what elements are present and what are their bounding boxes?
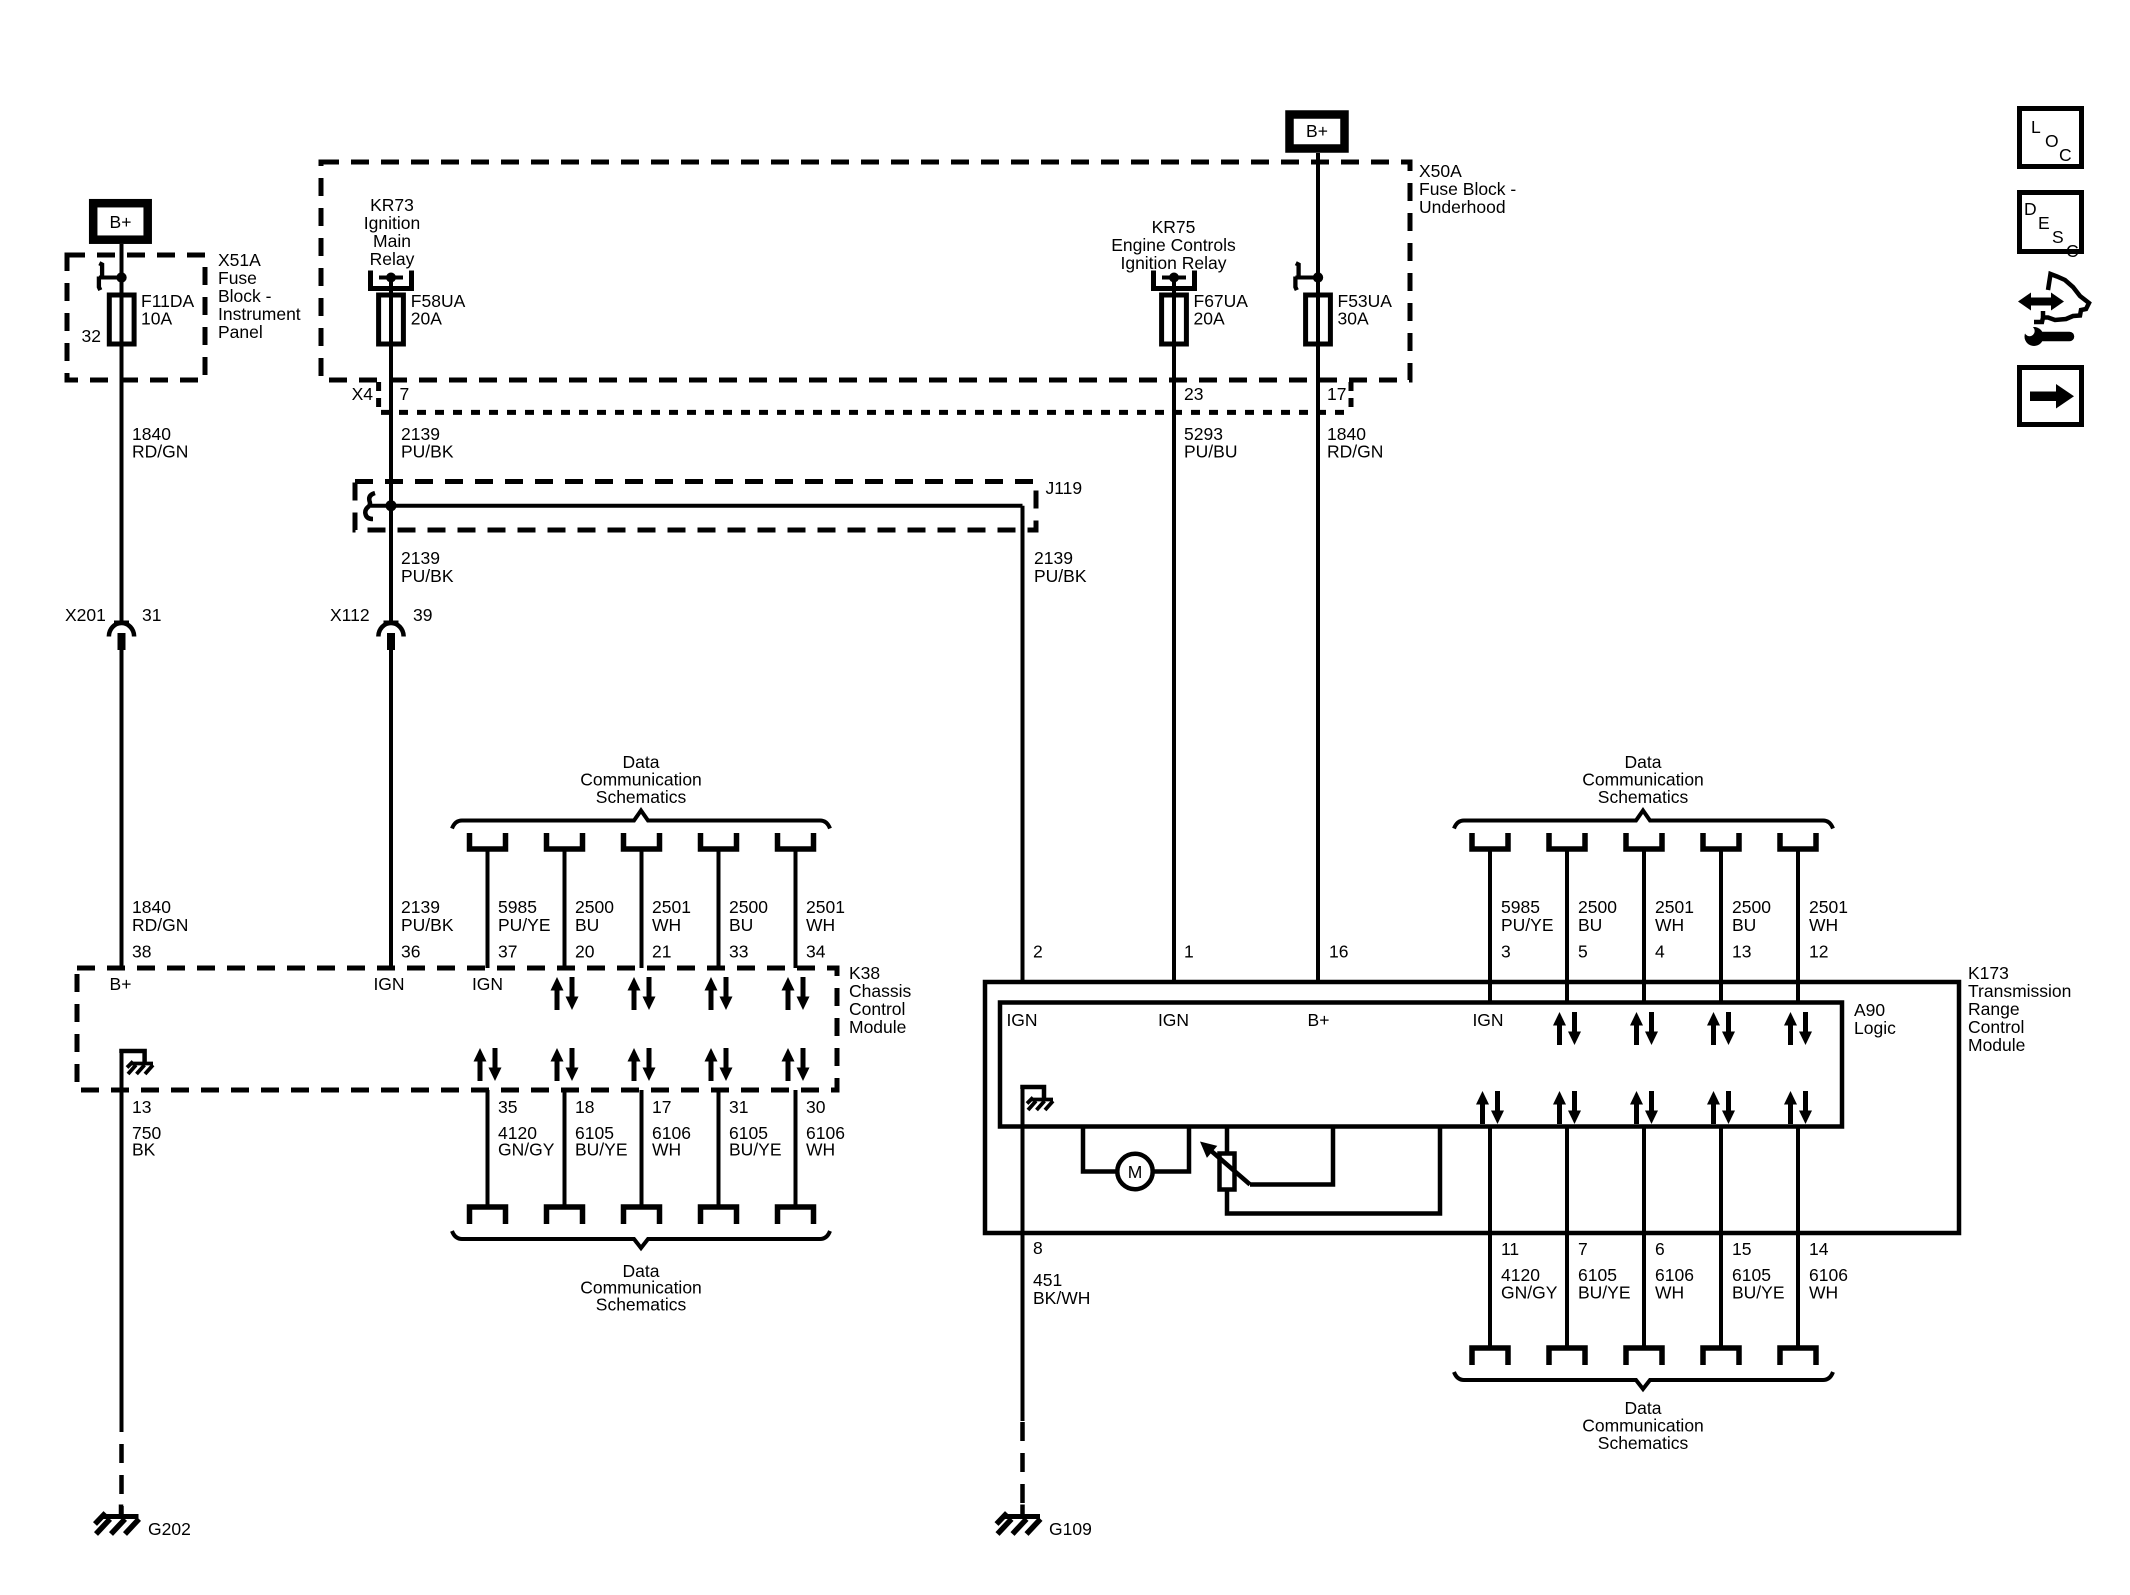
- svg-text:BU: BU: [729, 915, 753, 935]
- relay KR73 contact: [371, 271, 412, 289]
- K173 Transmission Range Control Module label: [1968, 963, 2071, 1055]
- svg-text:Panel: Panel: [218, 322, 263, 342]
- wire: X201 down to K38 pin 38: [120, 650, 124, 968]
- svg-text:37: 37: [498, 942, 517, 962]
- brace (K173 bottom): [1454, 1372, 1833, 1389]
- data wire and terminal (K38 bottom col 2): [547, 1090, 583, 1224]
- svg-text:32: 32: [82, 326, 101, 346]
- svg-text:Ignition: Ignition: [364, 213, 420, 233]
- data link terminal and wire (K38 col 4): [701, 833, 737, 968]
- data wire and terminal (K38 bottom col 4): [701, 1090, 737, 1224]
- svg-text:2500: 2500: [1732, 897, 1771, 917]
- A90 Logic label: [1854, 1000, 1896, 1038]
- wire: F58UA down through X4 and J119 to X112: [389, 278, 393, 623]
- fuse F67UA 20A: [1162, 291, 1249, 344]
- data link terminal and wire (K38 col 2): [547, 833, 583, 968]
- svg-text:7: 7: [1578, 1239, 1588, 1259]
- data link terminal and wire (K38 col 5): [778, 833, 814, 968]
- data arrows top row K173 col 5: [1784, 1012, 1812, 1045]
- icon LOC box: [2020, 109, 2082, 167]
- variable resistor (range sensor): [1220, 1154, 1235, 1190]
- svg-text:KR75: KR75: [1152, 217, 1196, 237]
- junction dot J119: [386, 500, 397, 511]
- svg-text:35: 35: [498, 1097, 517, 1117]
- power terminal B+ (instrument panel feed): [93, 203, 148, 240]
- data arrows bottom row K173 col 4: [1707, 1091, 1735, 1124]
- data arrows bottom row K38 col 5: [782, 1048, 810, 1081]
- Data Communication Schematics label (K173 top): [1582, 752, 1704, 807]
- svg-text:18: 18: [575, 1097, 594, 1117]
- svg-text:K38: K38: [849, 963, 880, 983]
- svg-text:8: 8: [1033, 1238, 1043, 1258]
- svg-text:2501: 2501: [1655, 897, 1694, 917]
- junction wire J119 horizontal: [371, 504, 1023, 508]
- svg-text:Underhood: Underhood: [1419, 197, 1506, 217]
- svg-text:O: O: [2045, 131, 2059, 151]
- svg-text:C: C: [2066, 241, 2079, 261]
- svg-text:Module: Module: [849, 1017, 906, 1037]
- svg-text:BU: BU: [1732, 915, 1756, 935]
- module K38 Chassis Control Module dashed box: [77, 968, 837, 1090]
- icon DESC box: [2020, 193, 2082, 262]
- wire label 1840 RD/GN (right): [1327, 424, 1383, 462]
- svg-text:Fuse Block -: Fuse Block -: [1419, 179, 1516, 199]
- svg-text:2500: 2500: [729, 897, 768, 917]
- wire label 5985 PU/YE, pin 3: [1501, 897, 1554, 962]
- data wire and terminal (K173 bottom col 3): [1626, 1127, 1662, 1366]
- svg-text:14: 14: [1809, 1239, 1829, 1259]
- svg-text:K173: K173: [1968, 963, 2009, 983]
- fuse F11DA 10A: [109, 291, 194, 344]
- relay KR75 contact: [1154, 271, 1195, 289]
- svg-text:J119: J119: [1046, 478, 1083, 498]
- brace (K38 bottom): [452, 1231, 830, 1248]
- data link terminal and wire (K173 col 3): [1626, 833, 1662, 1003]
- svg-text:Control: Control: [1968, 1017, 2024, 1037]
- svg-text:Range: Range: [1968, 999, 2020, 1019]
- data wire and terminal (K173 bottom col 1): [1472, 1127, 1508, 1366]
- wire label 2501 WH, pin 12: [1809, 897, 1848, 962]
- svg-text:PU/BK: PU/BK: [1034, 566, 1087, 586]
- svg-text:M: M: [1128, 1162, 1143, 1182]
- data arrows top row K173 col 3: [1630, 1012, 1658, 1045]
- svg-text:A90: A90: [1854, 1000, 1885, 1020]
- svg-text:BK: BK: [132, 1140, 156, 1160]
- svg-text:2501: 2501: [1809, 897, 1848, 917]
- svg-text:GN/GY: GN/GY: [1501, 1283, 1558, 1303]
- data wire and terminal (K173 bottom col 4): [1703, 1127, 1739, 1366]
- svg-text:Transmission: Transmission: [1968, 981, 2071, 1001]
- svg-text:IGN: IGN: [1158, 1010, 1189, 1030]
- svg-text:30: 30: [806, 1097, 826, 1117]
- svg-text:2501: 2501: [806, 897, 845, 917]
- svg-text:Relay: Relay: [370, 249, 415, 269]
- svg-text:33: 33: [729, 942, 748, 962]
- splice pack J119 dashed box: [355, 482, 1036, 531]
- svg-text:L: L: [2031, 117, 2041, 137]
- wire: F67UA down to K173 pin 1: [1172, 278, 1176, 983]
- wire label 5985 PU/YE, pin 37: [498, 897, 551, 962]
- pin 17: [1327, 382, 1351, 409]
- svg-text:G109: G109: [1049, 1519, 1092, 1539]
- svg-text:5985: 5985: [1501, 897, 1540, 917]
- svg-text:Module: Module: [1968, 1035, 2025, 1055]
- ground G109: [997, 1505, 1092, 1540]
- pin 11, wire label 4120 GN/GY: [1501, 1239, 1558, 1303]
- svg-text:RD/GN: RD/GN: [132, 915, 188, 935]
- data link terminal and wire (K173 col 2): [1549, 833, 1585, 1003]
- svg-text:IGN: IGN: [373, 974, 404, 994]
- svg-text:BU: BU: [1578, 915, 1602, 935]
- svg-text:B+: B+: [110, 974, 132, 994]
- svg-text:C: C: [2059, 145, 2072, 165]
- X50A Fuse Block - Underhood label: [1419, 161, 1516, 217]
- pin 17, wire label 6106 WH: [652, 1097, 691, 1160]
- svg-text:2139: 2139: [401, 897, 440, 917]
- wire label 2500 BU, pin 5: [1578, 897, 1617, 962]
- wire: B+ down through F11DA to connector X201: [120, 244, 124, 623]
- wire: K38 pin 13 ground wire to G202: [120, 1051, 124, 1516]
- svg-text:G202: G202: [148, 1519, 191, 1539]
- svg-text:20A: 20A: [411, 309, 442, 329]
- svg-text:X112: X112: [330, 605, 370, 625]
- data arrows bottom row K38 col 2: [551, 1048, 579, 1081]
- wire label 2139 PU/BK (below J119 right): [1034, 548, 1087, 586]
- svg-text:WH: WH: [652, 1140, 681, 1160]
- svg-text:RD/GN: RD/GN: [132, 442, 188, 462]
- svg-text:38: 38: [132, 942, 151, 962]
- svg-text:2501: 2501: [652, 897, 691, 917]
- data link terminal and wire (K173 col 5): [1780, 833, 1816, 1003]
- relay KR75 Engine Controls Ignition Relay label: [1111, 217, 1236, 273]
- data arrows top row K38 col 2: [551, 977, 579, 1010]
- svg-text:17: 17: [1327, 384, 1346, 404]
- svg-text:IGN: IGN: [472, 974, 503, 994]
- data arrows top row K38 col 5: [782, 977, 810, 1010]
- svg-text:451: 451: [1033, 1270, 1062, 1290]
- svg-text:WH: WH: [806, 915, 835, 935]
- X51A Fuse Block - Instrument Panel label: [218, 250, 301, 342]
- svg-text:X51A: X51A: [218, 250, 261, 270]
- svg-text:RD/GN: RD/GN: [1327, 442, 1383, 462]
- data wire and terminal (K38 bottom col 5): [778, 1090, 814, 1224]
- wiper arrow: [1200, 1142, 1250, 1185]
- wire label 5293 PU/BU: [1184, 424, 1237, 462]
- data arrows bottom row K173 col 3: [1630, 1091, 1658, 1124]
- wire label 2500 BU, pin 13: [1732, 897, 1771, 962]
- svg-text:Control: Control: [849, 999, 905, 1019]
- svg-text:WH: WH: [1655, 915, 1684, 935]
- svg-text:Logic: Logic: [1854, 1018, 1896, 1038]
- svg-text:39: 39: [413, 605, 432, 625]
- svg-text:IGN: IGN: [1472, 1010, 1503, 1030]
- svg-text:WH: WH: [1809, 1283, 1838, 1303]
- svg-text:BU/YE: BU/YE: [1732, 1283, 1785, 1303]
- position sensor wires: [1227, 1127, 1440, 1214]
- svg-text:S: S: [2052, 227, 2064, 247]
- svg-text:D: D: [2024, 199, 2037, 219]
- svg-text:Instrument: Instrument: [218, 304, 301, 324]
- svg-text:B+: B+: [1308, 1010, 1330, 1030]
- module K173 Transmission Range Control Module box: [985, 982, 1959, 1233]
- svg-text:E: E: [2038, 213, 2050, 233]
- wire label 2501 WH, pin 21: [652, 897, 691, 962]
- pin 15, wire label 6105 BU/YE: [1732, 1239, 1785, 1303]
- svg-text:PU/YE: PU/YE: [1501, 915, 1554, 935]
- data arrows bottom row K38 col 4: [705, 1048, 733, 1081]
- svg-text:36: 36: [401, 942, 420, 962]
- wire: X112 down to K38 pin 36: [389, 650, 393, 968]
- svg-text:21: 21: [652, 942, 671, 962]
- svg-text:BU/YE: BU/YE: [729, 1140, 782, 1160]
- data arrows bottom row K38 col 1: [474, 1048, 502, 1081]
- wire label 2501 WH, pin 4: [1655, 897, 1694, 962]
- svg-text:6: 6: [1655, 1239, 1665, 1259]
- wire label 2501 WH, pin 34: [806, 897, 845, 962]
- pin 31, wire label 6105 BU/YE: [729, 1097, 782, 1160]
- svg-text:KR73: KR73: [370, 195, 414, 215]
- svg-text:Schematics: Schematics: [596, 1294, 687, 1314]
- data arrows top row K173 col 4: [1707, 1012, 1735, 1045]
- splice hook symbol: [365, 493, 375, 519]
- svg-text:WH: WH: [1655, 1283, 1684, 1303]
- svg-text:Fuse: Fuse: [218, 268, 257, 288]
- svg-text:GN/GY: GN/GY: [498, 1140, 555, 1160]
- svg-text:11: 11: [1501, 1239, 1519, 1259]
- svg-text:3: 3: [1501, 942, 1511, 962]
- svg-text:23: 23: [1184, 384, 1203, 404]
- svg-text:IGN: IGN: [1006, 1010, 1037, 1030]
- wire label 2139 PU/BK (below X4): [401, 424, 454, 462]
- svg-text:BU: BU: [575, 915, 599, 935]
- bus bar hook and junction at F53UA: [1295, 263, 1323, 290]
- svg-text:X50A: X50A: [1419, 161, 1462, 181]
- dotted harness line X4: [381, 410, 1351, 415]
- svg-text:31: 31: [142, 605, 161, 625]
- wire label 1840 RD/GN (lower): [132, 897, 188, 935]
- fuse block X50A dashed box: [321, 162, 1410, 380]
- data arrows top row K38 col 4: [705, 977, 733, 1010]
- data arrows top row K173 col 2: [1553, 1012, 1581, 1045]
- svg-text:20A: 20A: [1194, 309, 1225, 329]
- internal ground of K38: [122, 1051, 154, 1074]
- svg-text:Engine Controls: Engine Controls: [1111, 235, 1236, 255]
- internal ground of K173: [1023, 1087, 1054, 1110]
- data arrows bottom row K173 col 5: [1784, 1091, 1812, 1124]
- data arrows bottom row K38 col 3: [628, 1048, 656, 1081]
- motor M: [1117, 1154, 1152, 1189]
- connector X201 pin 31: [65, 605, 161, 650]
- icon next-page arrow box: [2020, 368, 2082, 425]
- svg-text:2500: 2500: [1578, 897, 1617, 917]
- data arrows top row K38 col 3: [628, 977, 656, 1010]
- svg-text:30A: 30A: [1338, 309, 1369, 329]
- svg-text:BU/YE: BU/YE: [1578, 1283, 1631, 1303]
- wire: B+ down to F53UA: [1316, 153, 1320, 278]
- svg-text:2139: 2139: [401, 548, 440, 568]
- svg-text:B+: B+: [110, 212, 132, 232]
- svg-text:4: 4: [1655, 942, 1665, 962]
- pin 18, wire label 6105 BU/YE: [575, 1097, 628, 1160]
- pin 14, wire label 6106 WH: [1809, 1239, 1848, 1303]
- svg-text:WH: WH: [1809, 915, 1838, 935]
- connector X4 row of fuse block: [352, 382, 410, 408]
- svg-text:BK/WH: BK/WH: [1033, 1288, 1090, 1308]
- svg-text:Chassis: Chassis: [849, 981, 911, 1001]
- data arrows bottom row K173 col 2: [1553, 1091, 1581, 1124]
- relay KR73 Ignition Main Relay label: [364, 195, 420, 269]
- svg-text:2139: 2139: [1034, 548, 1073, 568]
- data arrows bottom row K173 col 1: [1476, 1091, 1504, 1124]
- wire label 1840 RD/GN (upper): [132, 424, 188, 462]
- logic block A90 box: [1000, 1003, 1842, 1127]
- ground G202: [95, 1505, 191, 1540]
- svg-text:7: 7: [400, 384, 410, 404]
- svg-text:PU/YE: PU/YE: [498, 915, 551, 935]
- wire label 2500 BU, pin 20: [575, 897, 614, 962]
- svg-text:Block -: Block -: [218, 286, 272, 306]
- svg-text:1: 1: [1184, 942, 1194, 962]
- svg-text:WH: WH: [652, 915, 681, 935]
- K38 Chassis Control Module label: [849, 963, 911, 1037]
- wire: F53UA down to K173 pin 16: [1316, 278, 1320, 983]
- connector X112 pin 39: [330, 605, 432, 650]
- data wire and terminal (K38 bottom col 3): [624, 1090, 660, 1224]
- Data Communication Schematics label (K38 bottom): [580, 1261, 702, 1314]
- svg-text:Ignition Relay: Ignition Relay: [1120, 253, 1226, 273]
- svg-text:Main: Main: [373, 231, 411, 251]
- svg-text:10A: 10A: [141, 309, 172, 329]
- svg-text:Schematics: Schematics: [1598, 1433, 1689, 1453]
- svg-text:20: 20: [575, 942, 595, 962]
- svg-text:31: 31: [729, 1097, 748, 1117]
- wire label 2139 PU/BK (above K38), pin 36: [401, 897, 454, 962]
- svg-text:Schematics: Schematics: [596, 787, 687, 807]
- svg-text:PU/BK: PU/BK: [401, 442, 454, 462]
- svg-text:1840: 1840: [132, 897, 171, 917]
- svg-text:13: 13: [1732, 942, 1751, 962]
- wire label 2500 BU, pin 33: [729, 897, 768, 962]
- svg-text:5985: 5985: [498, 897, 537, 917]
- svg-text:15: 15: [1732, 1239, 1751, 1259]
- motor M circuit wires: [1083, 1127, 1189, 1172]
- svg-text:B+: B+: [1306, 121, 1328, 141]
- svg-text:PU/BU: PU/BU: [1184, 442, 1237, 462]
- svg-text:12: 12: [1809, 942, 1828, 962]
- data link terminal and wire (K38 col 1): [470, 833, 506, 968]
- svg-text:2: 2: [1033, 942, 1043, 962]
- wire label 451 BK/WH: [1033, 1270, 1090, 1308]
- pin 30, wire label 6106 WH: [806, 1097, 845, 1160]
- data wire and terminal (K173 bottom col 2): [1549, 1127, 1585, 1366]
- brace (K38 top): [452, 811, 830, 829]
- wire: J119 down to K173 pin 2: [1021, 506, 1025, 982]
- Data Communication Schematics label (K173 bottom): [1582, 1398, 1704, 1453]
- fuse F58UA 20A: [379, 291, 466, 344]
- svg-text:5: 5: [1578, 942, 1588, 962]
- svg-text:WH: WH: [806, 1140, 835, 1160]
- fuse block X51A dashed box: [67, 255, 205, 380]
- data wire and terminal (K38 bottom col 1): [470, 1090, 506, 1224]
- svg-text:16: 16: [1329, 942, 1348, 962]
- wire: K173 pin 8 ground wire to G109: [1021, 1087, 1025, 1516]
- pin 35, wire label 4120 GN/GY: [498, 1097, 555, 1160]
- pin 6, wire label 6106 WH: [1655, 1239, 1694, 1303]
- pin 7, wire label 6105 BU/YE: [1578, 1239, 1631, 1303]
- svg-text:17: 17: [652, 1097, 671, 1117]
- bus bar hook and junction at F11DA: [99, 263, 127, 290]
- svg-text:Schematics: Schematics: [1598, 787, 1689, 807]
- svg-text:BU/YE: BU/YE: [575, 1140, 628, 1160]
- Data Communication Schematics label (K38 top): [580, 752, 702, 807]
- data link terminal and wire (K173 col 1): [1472, 833, 1508, 1003]
- data link terminal and wire (K38 col 3): [624, 833, 660, 968]
- svg-text:2500: 2500: [575, 897, 614, 917]
- svg-text:13: 13: [132, 1097, 151, 1117]
- brace (K173 top): [1454, 811, 1833, 829]
- svg-text:34: 34: [806, 942, 826, 962]
- svg-text:PU/BK: PU/BK: [401, 566, 454, 586]
- wire label 2139 PU/BK (below J119 left): [401, 548, 454, 586]
- power terminal B+ (underhood feed): [1290, 115, 1345, 149]
- data wire and terminal (K173 bottom col 5): [1780, 1127, 1816, 1366]
- svg-text:PU/BK: PU/BK: [401, 915, 454, 935]
- icon vehicle diagnostics (arrow, outline, wrench): [2018, 274, 2089, 346]
- data link terminal and wire (K173 col 4): [1703, 833, 1739, 1003]
- fuse F53UA 30A: [1306, 291, 1393, 344]
- svg-text:X4: X4: [352, 384, 374, 404]
- svg-text:X201: X201: [65, 605, 106, 625]
- wire label 750 BK: [132, 1123, 161, 1160]
